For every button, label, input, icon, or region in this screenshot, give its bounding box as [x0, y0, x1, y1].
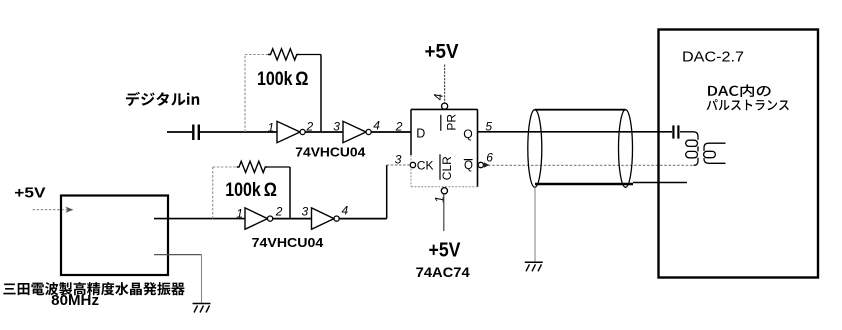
svg-text:100k: 100k — [257, 68, 293, 90]
svg-text:Q: Q — [464, 160, 473, 172]
capacitor C2 (inside DAC) — [673, 125, 678, 138]
svg-text:1: 1 — [236, 206, 243, 220]
label oscillator 三田電波製高精度水晶発振器 — [3, 282, 184, 295]
label PR with overbar — [441, 114, 459, 131]
wire feedback loop 2 right — [268, 167, 291, 219]
resistor R2 100kΩ zigzag — [237, 161, 268, 172]
ground (coax shield) — [525, 262, 543, 271]
svg-text:2: 2 — [395, 119, 403, 133]
wire CLR to +5V — [443, 194, 445, 231]
svg-text:3: 3 — [395, 152, 402, 166]
svg-text:3: 3 — [302, 205, 309, 219]
svg-text:3: 3 — [333, 119, 340, 133]
resistor R1 100kΩ zigzag — [268, 49, 299, 60]
svg-text:100k: 100k — [225, 179, 261, 201]
wire oscillator output — [154, 218, 245, 220]
wire Q output to DAC — [478, 131, 673, 133]
wire U1B out to FF D — [371, 131, 411, 133]
transformer T1 secondary — [704, 143, 726, 163]
svg-text:6: 6 — [486, 151, 493, 165]
inverter U1C — [245, 208, 273, 229]
svg-text:+5V: +5V — [14, 185, 46, 201]
label digital-in デジタルin — [126, 92, 199, 106]
capacitor C1 (input coupling) — [193, 125, 199, 141]
inverter U1A — [277, 121, 305, 142]
wire oscillator lower stub — [154, 255, 202, 303]
svg-text:74VHCU04: 74VHCU04 — [252, 235, 324, 250]
wire Qbar return (gray) — [484, 164, 694, 166]
bubble Qbar pin — [478, 162, 483, 167]
inverter U1D — [312, 208, 340, 229]
oscillator X1 box — [61, 196, 168, 276]
svg-text:+5V: +5V — [425, 41, 460, 63]
coax cable shield left ellipse — [528, 110, 542, 188]
wire input stub — [167, 131, 192, 133]
label パルストランス — [707, 99, 789, 110]
bubble PR pin — [442, 103, 448, 109]
svg-text:Ω: Ω — [264, 179, 277, 201]
svg-text:74AC74: 74AC74 — [416, 264, 470, 280]
svg-text:+5V: +5V — [429, 240, 462, 262]
bubble CK pin — [410, 162, 415, 167]
wire +5V to PR — [444, 65, 446, 103]
wire U1D out to FF CK — [339, 165, 410, 219]
wire feedback loop 2 left (gray) — [213, 167, 237, 219]
wire +5V arrow into oscillator (gray) — [33, 207, 74, 213]
ground (oscillator) — [193, 304, 211, 313]
svg-text:Q: Q — [463, 127, 472, 141]
wire coax shield to ground (gray) — [534, 187, 536, 261]
svg-text:1: 1 — [268, 120, 275, 134]
transformer T1 primary — [680, 132, 698, 166]
svg-text:CLR: CLR — [440, 156, 454, 180]
svg-text:4: 4 — [342, 204, 349, 218]
svg-text:4: 4 — [373, 119, 380, 133]
wire C1 to U1A input — [200, 131, 277, 133]
svg-text:PR: PR — [444, 114, 458, 131]
label DAC内の — [708, 84, 771, 97]
svg-text:80MHz: 80MHz — [51, 292, 99, 309]
svg-text:2: 2 — [275, 205, 283, 219]
label CLR with overbar — [440, 154, 454, 180]
wire U1C out to U1D in — [273, 218, 312, 220]
svg-text:D: D — [416, 127, 425, 141]
flip-flop U2 74AC74 box — [411, 109, 478, 186]
coax bottom shield line — [535, 183, 687, 185]
svg-text:4: 4 — [432, 93, 446, 100]
inverter U1B — [343, 121, 371, 142]
wire feedback loop 1 left (gray) — [245, 55, 268, 133]
svg-text:CK: CK — [417, 159, 434, 173]
svg-text:Ω: Ω — [295, 68, 308, 90]
bubble CLR pin — [441, 188, 447, 194]
label Qbar with overbar — [464, 160, 473, 172]
svg-text:74VHCU04: 74VHCU04 — [295, 144, 366, 159]
coax cable shield right ellipse — [619, 110, 633, 188]
DAC-2.7 box — [659, 30, 819, 278]
svg-text:DAC-2.7: DAC-2.7 — [682, 50, 744, 66]
wire U1A out to U1B in — [305, 131, 343, 133]
coax top line — [535, 109, 626, 111]
wire feedback loop 1 right — [299, 55, 321, 133]
